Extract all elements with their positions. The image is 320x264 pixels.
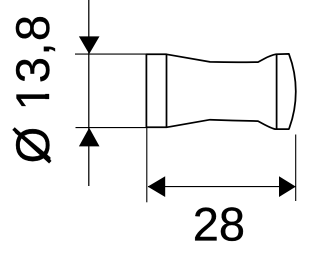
arrow (right) on length dimension [279,176,296,197]
top extension line [75,53,146,55]
slash of Ø (extension) [14,129,51,163]
arrow (left) on length dimension [148,176,166,197]
right extension line [295,135,297,202]
svg-text:28: 28 [193,197,245,250]
trim of digit 1 flag [44,84,55,94]
arrow (up) at bottom extension [79,128,100,147]
knob dome edge line [276,54,278,129]
vertical dimension line [88,0,90,186]
arrow (down) at top extension [79,36,100,54]
knob flange inner edge [166,54,168,127]
bottom extension line [76,127,147,129]
left extension line (below flange) [146,127,148,202]
horizontal dimension line [148,186,296,188]
knob body outline [146,54,295,129]
